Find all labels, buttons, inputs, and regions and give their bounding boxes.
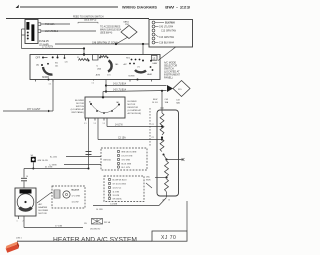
svg-text:C48 GRN/TAN 17 CONN: C48 GRN/TAN 17 CONN (92, 41, 118, 44)
box bottom pins (35, 80, 37, 82)
svg-text:11 GTN: 11 GTN (113, 192, 120, 194)
drop into blower switch (102, 92, 104, 98)
svg-text:LTL/GT GTN: LTL/GT GTN (122, 156, 133, 158)
blower motor switch box (85, 97, 125, 118)
svg-text:1J1: 1J1 (65, 62, 68, 64)
blower motor box (15, 188, 36, 216)
wire tap left JNC (155, 177, 167, 179)
blower resistor box (157, 110, 179, 196)
coil 2 (100, 56, 108, 58)
svg-text:P1O LEA: P1O LEA (45, 23, 55, 26)
svg-text:A1: A1 (89, 101, 91, 104)
connector C100 bar2 (31, 24, 34, 41)
svg-text:(LOCATED AT: (LOCATED AT (128, 109, 142, 112)
motor brush bar top (20, 189, 32, 193)
svg-text:C13 GRN/TAN: C13 GRN/TAN (159, 36, 174, 39)
connector C100 pin dots (27, 32, 29, 34)
svg-text:141: 141 (55, 66, 58, 68)
svg-text:HO1: HO1 (126, 58, 130, 60)
leader motor to detail (37, 192, 52, 203)
contact stub x57.5 (57, 55, 59, 58)
svg-text:1A1: 1A1 (115, 63, 118, 66)
inline connector on x88 (86, 151, 92, 153)
wire left drop x53 (52, 80, 54, 112)
svg-text:MOTOR: MOTOR (76, 103, 84, 105)
svg-text:1: 1 (17, 221, 18, 223)
svg-text:C2 15A: C2 15A (118, 137, 126, 140)
svg-text:B+ LB1: B+ LB1 (50, 156, 58, 158)
wire C48 GRN/TAN (55, 43, 149, 45)
svg-text:C2: C2 (152, 137, 154, 139)
wire drop A (83, 47, 85, 49)
svg-text:13 GTN: 13 GTN (113, 195, 120, 197)
svg-text:14: 14 (26, 176, 28, 178)
wire C1 688 (93, 205, 159, 207)
svg-text:1O1: 1O1 (107, 75, 111, 77)
svg-text:2: 2 (23, 221, 24, 223)
wire long left drop x88 (88, 121, 90, 169)
svg-text:17 13N: 17 13N (55, 226, 62, 228)
svg-text:1 1: 1 1 (94, 123, 97, 125)
svg-text:13: 13 (152, 56, 156, 60)
relay box on top edge (93, 55, 99, 61)
svg-text:141 LTL/B14: 141 LTL/B14 (113, 84, 127, 86)
svg-text:142 LTL/B14: 142 LTL/B14 (113, 90, 127, 92)
wire 17 LT/GTN (22, 48, 85, 50)
svg-text:(1W): (1W) (97, 69, 101, 71)
svg-text:HEA1: HEA1 (147, 73, 152, 76)
svg-text:C18 BLK/WH4: C18 BLK/WH4 (159, 43, 175, 45)
svg-text:GT 10 LTL/GR4: GT 10 LTL/GR4 (113, 184, 126, 186)
motor ground wire (23, 219, 25, 228)
svg-text:41 GTN: 41 GTN (45, 167, 53, 169)
motor pins (18, 216, 20, 219)
svg-text:PANEL): PANEL) (164, 77, 173, 80)
svg-text:1 1: 1 1 (49, 83, 52, 85)
rotary left arc (43, 67, 53, 75)
svg-text:HEATER AND A/C SYSTEM: HEATER AND A/C SYSTEM (53, 237, 137, 243)
connector block GM160 (101, 148, 147, 170)
motor circle (17, 194, 34, 211)
resistor zigzag B (160, 139, 164, 152)
motor bottom arc (20, 208, 32, 211)
svg-text:A/C: A/C (124, 63, 128, 66)
resistor zigzag D (165, 179, 169, 192)
wire y31 (41, 30, 96, 32)
leader to connector above (158, 47, 176, 61)
svg-text:C2: C2 (152, 124, 154, 126)
svg-text:1 1: 1 1 (84, 123, 87, 125)
svg-text:GM 10-1N: GM 10-1N (38, 160, 49, 162)
svg-text:W1: W1 (55, 63, 58, 65)
switch bottom pins (85, 118, 87, 121)
resistor zigzag A (160, 113, 164, 135)
top bus rule (6, 18, 149, 20)
wire left pins (22, 28, 26, 30)
svg-text:14 LT2 C2: 14 LT2 C2 (113, 188, 122, 190)
svg-text:RESISTOR: RESISTOR (128, 107, 139, 109)
coil 1 (79, 59, 89, 61)
contact stub x64.5 (64, 55, 66, 59)
XJ70 box (152, 231, 187, 241)
svg-text:MAIN SUNGLE BOA: MAIN SUNGLE BOA (100, 29, 122, 32)
svg-text:51: 51 (77, 57, 79, 59)
svg-text:MOTOR: MOTOR (128, 104, 136, 106)
svg-text:8W - 223: 8W - 223 (165, 5, 191, 10)
svg-text:14 LOW: 14 LOW (72, 202, 79, 204)
svg-text:WIRING DIAGRAMS: WIRING DIAGRAMS (122, 5, 157, 10)
svg-text:(LOCATED AT: (LOCATED AT (71, 108, 85, 111)
connector block 2 (104, 176, 144, 202)
svg-text:1A1: 1A1 (116, 101, 119, 104)
rotary left contacts (42, 57, 44, 59)
wire tap right (167, 159, 184, 161)
svg-text:OFF: OFF (36, 58, 41, 60)
svg-text:W1R: W1R (146, 180, 151, 182)
svg-text:ACM: ACM (96, 74, 101, 77)
rotary right arc (135, 70, 146, 72)
wire down to motor (23, 169, 25, 178)
svg-text:14 13N: 14 13N (96, 209, 103, 211)
svg-text:14 G1: 14 G1 (152, 102, 159, 104)
svg-text:JN1 W1 R2: JN1 W1 R2 (90, 229, 101, 231)
svg-text:A/C: A/C (39, 203, 43, 206)
diamond splice S1 (121, 26, 137, 39)
pin squares (38, 23, 41, 26)
wire 14 LTN (106, 121, 108, 127)
right drop wire (186, 201, 188, 231)
svg-text:BLACK: BLACK (72, 189, 80, 192)
svg-text:SWITCH: SWITCH (76, 106, 85, 108)
connector C100 bar1 (26, 22, 29, 30)
svg-text:GAN1: GAN1 (123, 21, 130, 24)
svg-text:HEAT: HEAT (153, 62, 159, 65)
svg-text:BLOWER: BLOWER (128, 101, 138, 103)
svg-text:HI: HI (37, 65, 40, 67)
C200 pins (152, 21, 155, 44)
svg-text:BLOW W1 BL18: BLOW W1 BL18 (113, 180, 127, 182)
wire vertical x21 (21, 29, 23, 49)
dot on top edge (83, 53, 85, 55)
pin x93 labels (93, 80, 95, 81)
svg-text:17 LT/GTN: 17 LT/GTN (42, 47, 54, 49)
svg-text:BL 1 GTN: BL 1 GTN (122, 167, 131, 169)
svg-text:1 1: 1 1 (92, 83, 95, 85)
diamond splice S2 (173, 81, 190, 97)
splice square GM (31, 157, 36, 162)
wire 141 (106, 85, 167, 87)
svg-text:17 L GRN: 17 L GRN (72, 196, 81, 198)
svg-text:GT1 GRN: GT1 GRN (122, 160, 131, 162)
dashed C1 marker (149, 108, 151, 146)
leader to diamond (116, 37, 128, 44)
svg-text:8RN 18 LTL/GRN: 8RN 18 LTL/GRN (122, 152, 137, 154)
svg-text:1HY 14 A/NT: 1HY 14 A/NT (27, 108, 41, 111)
header rule (20, 6, 118, 8)
wire 142 (103, 91, 167, 92)
ground run wire (24, 168, 89, 170)
svg-text:JNC: JNC (146, 177, 150, 179)
switch contacts (90, 103, 92, 105)
detail connector box (52, 186, 85, 208)
svg-text:W1 1A: W1 1A (104, 221, 111, 224)
connector C200 box (149, 20, 193, 48)
svg-text:A/C MODULE): A/C MODULE) (128, 112, 142, 115)
svg-text:TO ACCESSORIES: TO ACCESSORIES (100, 26, 121, 29)
svg-text:HEATER: HEATER (39, 206, 48, 209)
svg-text:C1 688: C1 688 (110, 204, 118, 206)
resistor zigzag C (165, 161, 169, 177)
wire drop B (142, 43, 144, 45)
svg-text:BLW: BLW (153, 99, 157, 101)
mode selector switch box (30, 55, 160, 80)
svg-text:14 LTN: 14 LTN (115, 125, 123, 127)
resistor bottom pin (166, 192, 168, 197)
svg-text:MOTOR: MOTOR (39, 213, 48, 215)
svg-text:BLK/WH: BLK/WH (165, 22, 175, 25)
header arrow (16, 5, 20, 8)
svg-text:NORM: NORM (129, 76, 135, 78)
wire to left edge y111 (3, 110, 53, 112)
svg-text:BLOWER: BLOWER (75, 100, 85, 102)
svg-text:XJ 70: XJ 70 (161, 235, 176, 241)
svg-text:BLOWER: BLOWER (39, 210, 49, 212)
svg-text:INST PANEL): INST PANEL) (71, 111, 84, 114)
bottom rule (17, 240, 152, 242)
connector C100 box (25, 20, 38, 44)
svg-text:BLO1 GRN: BLO1 GRN (122, 164, 132, 166)
svg-text:JON 1: JON 1 (16, 238, 23, 240)
svg-text:FEED TO IGNITION SWITCH: FEED TO IGNITION SWITCH (73, 17, 104, 19)
corner terminal box (152, 55, 158, 60)
big crescent middle (108, 61, 112, 72)
svg-text:GM 160: GM 160 (103, 160, 112, 162)
logo (5, 242, 20, 253)
svg-text:C43 LTL/GR4: C43 LTL/GR4 (159, 27, 174, 29)
svg-text:LT1: LT1 (137, 67, 140, 69)
wire drop mid x106 (105, 80, 107, 92)
arrow into diamond (167, 85, 173, 92)
wire C2 15A (97, 121, 99, 140)
svg-text:NORM: NORM (42, 77, 49, 79)
wire y24 (41, 23, 70, 25)
svg-text:1 1: 1 1 (103, 123, 106, 125)
svg-text:C13 GRN/TAN: C13 GRN/TAN (161, 30, 176, 33)
svg-text:(SEE 8W-4): (SEE 8W-4) (100, 33, 112, 35)
svg-text:L6A LT1/BL1: L6A LT1/BL1 (45, 30, 59, 33)
svg-text:(SEE 8W-3): (SEE 8W-3) (84, 20, 96, 22)
svg-text:GR 130 BL: GR 130 BL (113, 199, 122, 201)
